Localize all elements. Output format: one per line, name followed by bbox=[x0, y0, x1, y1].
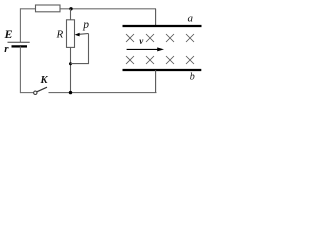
wire: bottom horizontal from switch to right corner bbox=[49, 92, 157, 94]
switch K pivot circle bbox=[34, 91, 37, 94]
label v bbox=[139, 36, 144, 46]
svg-text:r: r bbox=[4, 43, 9, 55]
label p bbox=[82, 19, 89, 31]
svg-text:p: p bbox=[82, 19, 89, 31]
wire: bottom left segment to switch bbox=[20, 92, 33, 94]
label K bbox=[40, 75, 49, 86]
wire: resistor R bottom to bottom wire bbox=[70, 47, 72, 92]
node: slider tap junction dot bbox=[69, 62, 72, 65]
label r bbox=[4, 43, 9, 55]
wire: left vertical lower (battery to bottom wire) bbox=[19, 46, 21, 93]
magnetic field crosses row 2 bbox=[126, 56, 194, 64]
battery E (long thin positive plate) bbox=[8, 41, 30, 43]
label a bbox=[188, 13, 194, 25]
wire: top horizontal from battery to plate corner bbox=[20, 8, 156, 10]
node: bottom junction dot bbox=[69, 91, 72, 94]
svg-text:b: b bbox=[190, 72, 195, 83]
label E bbox=[4, 27, 13, 41]
slider arrow p head bbox=[75, 33, 80, 37]
resistor R (rheostat body) bbox=[67, 20, 75, 48]
svg-text:K: K bbox=[40, 75, 49, 86]
svg-text:a: a bbox=[188, 13, 194, 25]
svg-text:R: R bbox=[56, 29, 64, 41]
wire: junction down to resistor R bbox=[70, 9, 72, 20]
wire: plate b down to bottom wire bbox=[155, 70, 157, 93]
wire: left vertical upper (battery to top wire) bbox=[19, 8, 21, 42]
svg-text:v: v bbox=[139, 36, 144, 46]
velocity arrow v head bbox=[157, 47, 164, 51]
plate a (top capacitor plate) bbox=[123, 25, 202, 27]
resistor (unlabeled, top) bbox=[36, 5, 61, 12]
slider arrow p (wiper) line bbox=[79, 33, 89, 36]
wire: right vertical down to plate a bbox=[155, 9, 157, 26]
plate b (bottom capacitor plate) bbox=[123, 69, 202, 71]
label R bbox=[56, 29, 64, 41]
label b bbox=[190, 72, 195, 83]
svg-text:E: E bbox=[4, 27, 13, 41]
switch K lever bbox=[37, 87, 47, 92]
magnetic field crosses row 1 bbox=[126, 34, 194, 42]
battery E (short thick negative plate, internal resistance r) bbox=[12, 45, 28, 47]
node: top junction dot bbox=[69, 7, 72, 10]
wire: slider tap (vertical right + horizontal to junction) bbox=[71, 34, 89, 64]
velocity arrow v line bbox=[127, 48, 159, 50]
